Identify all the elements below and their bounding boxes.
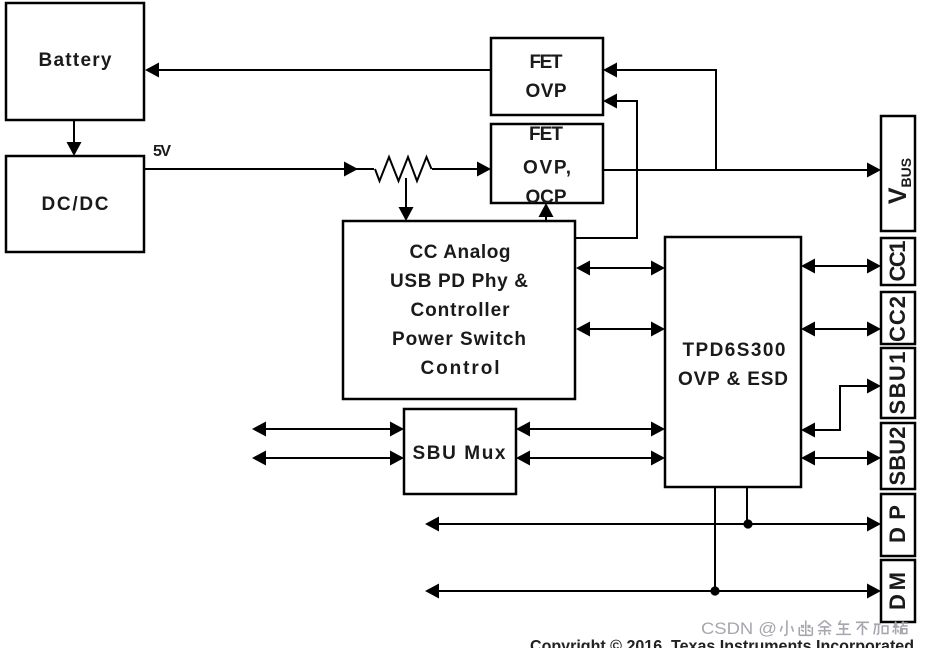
svg-text:OCP: OCP	[526, 187, 567, 208]
svg-text:SBU1: SBU1	[885, 352, 910, 415]
svg-text:5V: 5V	[153, 143, 171, 160]
svg-text:OVP,: OVP,	[523, 158, 571, 179]
svg-text:CC1: CC1	[885, 241, 910, 282]
svg-text:OVP: OVP	[526, 81, 567, 102]
svg-text:Controller: Controller	[411, 300, 511, 321]
svg-text:Copyright © 2016, Texas Instru: Copyright © 2016, Texas Instruments Inco…	[530, 637, 914, 648]
svg-text:TPD6S300: TPD6S300	[683, 340, 786, 361]
svg-text:FET: FET	[529, 124, 563, 145]
svg-text:Battery: Battery	[39, 50, 112, 71]
svg-text:OVP & ESD: OVP & ESD	[678, 369, 788, 390]
svg-text:DM: DM	[885, 572, 910, 610]
svg-text:Power Switch: Power Switch	[392, 329, 526, 350]
svg-text:Control: Control	[421, 358, 500, 379]
svg-text:CC Analog: CC Analog	[410, 242, 511, 263]
svg-text:FET: FET	[530, 52, 563, 73]
svg-text:SBU2: SBU2	[885, 427, 910, 486]
svg-text:USB PD Phy &: USB PD Phy &	[390, 271, 528, 292]
svg-text:CC2: CC2	[885, 296, 910, 342]
svg-text:SBU Mux: SBU Mux	[413, 443, 506, 464]
svg-text:CSDN @: CSDN @	[701, 619, 777, 638]
svg-text:DC/DC: DC/DC	[42, 194, 109, 215]
